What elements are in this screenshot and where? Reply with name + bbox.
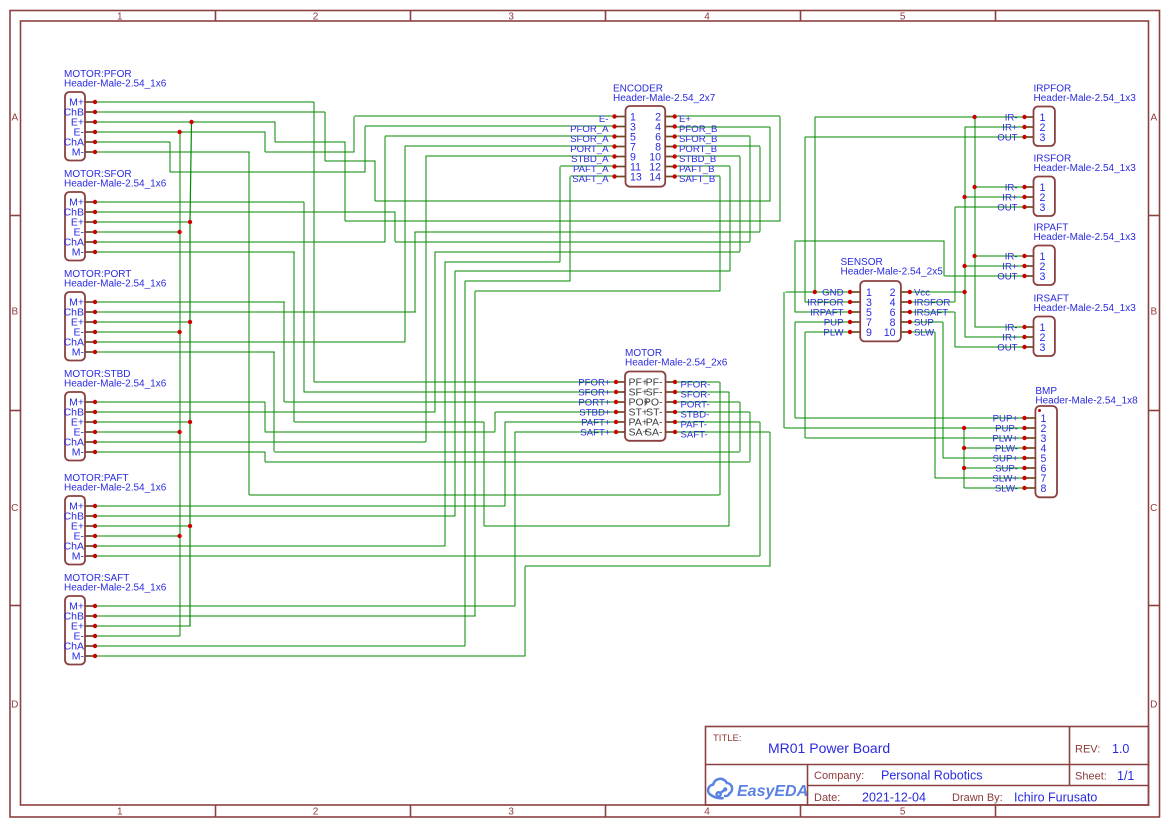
svg-text:A: A [11, 113, 18, 124]
svg-text:Header-Male-2.54_1x6: Header-Male-2.54_1x6 [64, 279, 167, 290]
wire SAFT+ (M+) [95, 432, 616, 606]
svg-text:Header-Male-2.54_1x6: Header-Male-2.54_1x6 [64, 583, 167, 594]
wire PUP net [795, 322, 1025, 418]
wire SLW net [910, 332, 1025, 478]
EasyEDA logo [708, 779, 808, 800]
junction GND at sensor pin 1 row [813, 290, 817, 294]
svg-text:OUT: OUT [997, 272, 1017, 283]
svg-text:3: 3 [1040, 202, 1046, 214]
svg-text:3: 3 [1040, 132, 1046, 144]
wire E+ bus [95, 122, 192, 626]
title value: MR01 Power Board [768, 740, 890, 756]
company row [814, 769, 982, 783]
drawn-by row [952, 791, 1097, 805]
svg-text:SA-: SA- [645, 427, 663, 439]
connector IRSAFT (Header-Male-2.54_1x3) [997, 294, 1136, 357]
svg-text:8: 8 [1041, 483, 1047, 495]
connector SENSOR (Header-Male-2.54_2x5) [807, 257, 950, 341]
svg-text:Header-Male-2.54_2x7: Header-Male-2.54_2x7 [613, 93, 716, 104]
svg-text:TITLE:: TITLE: [713, 733, 742, 744]
connector BMP (Header-Male-2.54_1x8) [992, 386, 1138, 497]
svg-text:Sheet:: Sheet: [1075, 771, 1107, 783]
wire SAFT- (M-) [95, 432, 770, 656]
svg-text:M-: M- [72, 247, 85, 259]
junction E- bus taps [177, 130, 181, 538]
svg-text:13: 13 [630, 172, 642, 184]
svg-text:1: 1 [117, 12, 123, 23]
svg-text:1/1: 1/1 [1117, 769, 1134, 783]
svg-text:D: D [1150, 700, 1157, 711]
svg-text:M-: M- [72, 147, 85, 159]
svg-text:B: B [1150, 307, 1157, 318]
connector MOTOR:PFOR [64, 69, 167, 161]
title label [713, 733, 742, 744]
svg-text:Header-Male-2.54_1x3: Header-Male-2.54_1x3 [1034, 303, 1137, 314]
wire PORT- (M-) [95, 352, 740, 452]
wire E- net trunk [95, 116, 615, 152]
svg-text:C: C [1150, 503, 1157, 514]
connector MOTOR:STBD [64, 369, 167, 461]
svg-text:Header-Male-2.54_1x6: Header-Male-2.54_1x6 [64, 179, 167, 190]
svg-text:C: C [11, 503, 18, 514]
svg-text:Ichiro Furusato: Ichiro Furusato [1014, 791, 1097, 805]
title block [706, 727, 1149, 806]
svg-text:2: 2 [313, 807, 319, 818]
svg-text:SAFT-: SAFT- [681, 430, 708, 441]
svg-text:4: 4 [704, 12, 710, 23]
svg-text:D: D [11, 700, 18, 711]
wire PAFT- (M-) [95, 422, 760, 556]
svg-text:10: 10 [884, 327, 896, 339]
svg-text:5: 5 [900, 807, 906, 818]
connector MOTOR (Header-Male-2.54_2x6) [578, 348, 727, 441]
junction IR- bus taps [972, 115, 976, 258]
svg-text:M-: M- [72, 447, 85, 459]
svg-text:SLW: SLW [914, 328, 935, 339]
svg-text:3: 3 [508, 12, 514, 23]
wire PORT_A (ChA) [95, 146, 615, 342]
wire Vcc net [910, 127, 1025, 337]
svg-text:SAFT_B: SAFT_B [679, 174, 715, 185]
svg-text:M-: M- [72, 651, 85, 663]
svg-text:EasyEDA: EasyEDA [737, 783, 808, 800]
wire SFOR+ (M+) [95, 202, 616, 392]
svg-text:OUT: OUT [997, 133, 1017, 144]
svg-text:SAFT_A: SAFT_A [572, 174, 609, 185]
wire IRPFOR net [805, 137, 1025, 302]
connector IRPAFT (Header-Male-2.54_1x3) [997, 223, 1136, 286]
junction E+ bus taps [188, 120, 194, 528]
wire SAFT_A (ChA) [95, 176, 615, 646]
wire GND net [784, 117, 1025, 488]
wire PFOR+ (M+) [95, 102, 616, 382]
connector ENCODER (Header-Male-2.54_2x7) [570, 84, 717, 187]
svg-text:SAFT+: SAFT+ [580, 428, 611, 439]
svg-text:Drawn By:: Drawn By: [952, 792, 1003, 804]
wire PLW net [805, 332, 1025, 438]
junction Vcc / IR+ bus taps [962, 195, 966, 294]
wire SUP net [910, 322, 1025, 458]
svg-text:Date:: Date: [814, 792, 840, 804]
wire STBD+ (M+) [95, 402, 616, 432]
svg-text:PLW: PLW [823, 328, 844, 339]
sheet row [1075, 769, 1134, 783]
svg-text:3: 3 [508, 807, 514, 818]
svg-text:3: 3 [1040, 342, 1046, 354]
connector MOTOR:PORT [64, 269, 167, 361]
wire IRPAFT net [795, 241, 1025, 312]
wire E+ net trunk [95, 116, 780, 222]
svg-text:OUT: OUT [997, 203, 1017, 214]
wire IRSAFT net [910, 312, 1025, 347]
svg-text:Header-Male-2.54_1x3: Header-Male-2.54_1x3 [1034, 93, 1137, 104]
svg-text:A: A [1150, 113, 1157, 124]
svg-text:5: 5 [900, 12, 906, 23]
svg-text:Header-Male-2.54_2x5: Header-Male-2.54_2x5 [841, 267, 944, 278]
wire SFOR- (M-) [95, 252, 729, 526]
wire PAFT_A (ChA) [95, 166, 615, 546]
wire PFOR- (M-) [95, 152, 720, 495]
wire PAFT+ (M+) [95, 422, 616, 506]
svg-text:1: 1 [117, 807, 123, 818]
svg-text:Header-Male-2.54_1x3: Header-Male-2.54_1x3 [1034, 163, 1137, 174]
connector MOTOR:SAFT [64, 573, 167, 665]
date row [814, 791, 926, 805]
svg-text:M-: M- [72, 551, 85, 563]
svg-text:14: 14 [649, 172, 661, 184]
rev label and value [1075, 742, 1129, 756]
svg-text:M-: M- [72, 347, 85, 359]
svg-text:Header-Male-2.54_1x3: Header-Male-2.54_1x3 [1034, 232, 1137, 243]
wire SFOR_B (ChB) [95, 136, 750, 242]
svg-text:OUT: OUT [997, 343, 1017, 354]
svg-text:SLW-: SLW- [995, 484, 1018, 495]
wire STBD_B (ChB) [95, 156, 740, 412]
svg-text:Header-Male-2.54_2x6: Header-Male-2.54_2x6 [625, 358, 728, 369]
wire E- bus [95, 132, 180, 636]
connector IRSFOR (Header-Male-2.54_1x3) [997, 154, 1136, 217]
svg-text:Header-Male-2.54_1x6: Header-Male-2.54_1x6 [64, 483, 167, 494]
svg-text:B: B [11, 307, 18, 318]
wire SAFT_B (ChB) [95, 176, 720, 616]
svg-text:1.0: 1.0 [1112, 742, 1129, 756]
connector MOTOR:PAFT [64, 473, 167, 565]
svg-text:REV:: REV: [1075, 744, 1100, 756]
wire STBD- (M-) [95, 412, 750, 462]
wire PFOR_B (ChB) [95, 112, 770, 202]
wire IRSFOR net [910, 207, 1025, 302]
svg-text:Header-Male-2.54_1x6: Header-Male-2.54_1x6 [64, 79, 167, 90]
svg-text:MR01 Power Board: MR01 Power Board [768, 740, 890, 756]
svg-text:3: 3 [1040, 271, 1046, 283]
wire SFOR_A (ChA) [95, 136, 615, 242]
wire STBD_A (ChA) [95, 156, 615, 442]
junction GND taps at BMP [962, 426, 966, 470]
wire PAFT_B (ChB) [95, 166, 730, 516]
svg-text:2021-12-04: 2021-12-04 [862, 791, 926, 805]
svg-text:2: 2 [313, 12, 319, 23]
wire PORT+ (M+) [95, 302, 616, 402]
svg-text:9: 9 [866, 327, 872, 339]
connector MOTOR:SFOR [64, 169, 167, 261]
wire PFOR_A (ChA) [95, 126, 615, 172]
svg-text:Header-Male-2.54_1x6: Header-Male-2.54_1x6 [64, 379, 167, 390]
svg-text:Company:: Company: [814, 770, 864, 782]
svg-text:4: 4 [704, 807, 710, 818]
svg-text:Personal Robotics: Personal Robotics [881, 769, 982, 783]
svg-text:Header-Male-2.54_1x8: Header-Male-2.54_1x8 [1035, 396, 1138, 407]
wire PORT_B (ChB) [95, 146, 760, 312]
connector IRPFOR (Header-Male-2.54_1x3) [997, 84, 1136, 147]
